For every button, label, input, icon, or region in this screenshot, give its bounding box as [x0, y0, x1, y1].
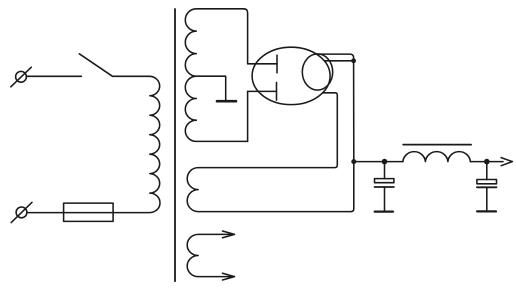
ground under C1 — [375, 211, 393, 213]
terminal X1 (top-left input, circle with slash) — [11, 67, 32, 87]
choke L1 winding — [403, 152, 471, 162]
junction dot at capacitor C2 — [484, 159, 490, 165]
arrow on W4 bottom lead — [223, 273, 235, 280]
capacitor C1 lower lead — [384, 188, 386, 211]
wire: HV secondary top lead down to anode 1 — [244, 9, 248, 64]
filament lead A (top) to junction — [318, 54, 354, 61]
fuse F1 — [64, 203, 114, 221]
tube V1 filament loop — [302, 54, 332, 90]
junction dot at capacitor C1 — [382, 159, 388, 165]
capacitor C2 (electrolytic) lead — [486, 162, 488, 180]
terminal X2 (bottom-left input, circle with slash) — [11, 202, 32, 222]
anode lead 2 of tube V1 — [248, 90, 277, 92]
ground (center tap) — [217, 100, 236, 103]
junction node at filter rail — [351, 159, 356, 164]
capacitor C1 top plate (rectangle) — [375, 179, 394, 183]
wire: HV secondary bottom lead up to anode 2 — [247, 91, 249, 141]
ground under C2 — [477, 210, 496, 212]
capacitor C1 (electrolytic) lead — [384, 162, 386, 179]
switch S1 (open knife switch blade) — [79, 54, 112, 77]
wire from switch to primary winding — [113, 75, 150, 77]
wire: filter rail to choke — [354, 161, 403, 163]
wire: choke to output — [470, 161, 503, 163]
filament lead C down to filament winding top — [198, 93, 337, 168]
anode plate 1 of tube V1 — [276, 55, 278, 73]
choke L1 core bar — [403, 144, 471, 146]
capacitor C2 top plate (rectangle) — [477, 180, 497, 184]
anode plate 2 of tube V1 — [276, 82, 278, 100]
transformer core — [174, 9, 176, 281]
capacitor C1 bottom plate — [375, 186, 394, 188]
filament lead B to junction — [325, 60, 354, 62]
anode lead 1 of tube V1 — [248, 63, 277, 65]
transformer HV secondary winding W2 with top/bottom leads — [185, 9, 247, 142]
junction dot (B+ output of filament) — [351, 58, 356, 63]
wire from terminal X2 to fuse — [27, 212, 64, 214]
center tap wire of W2 — [196, 76, 225, 100]
wire from junction down to filament winding bottom — [351, 61, 354, 212]
output arrow — [501, 158, 512, 166]
vibrator winding W4 with arrow leads — [187, 234, 230, 276]
capacitor C2 lower lead — [486, 188, 488, 211]
transformer primary winding W1 — [113, 76, 160, 212]
arrow on W4 top lead — [223, 231, 235, 238]
wire from terminal X1 to switch — [26, 75, 81, 77]
tube V1 envelope — [252, 47, 330, 104]
capacitor C2 bottom plate — [477, 186, 497, 188]
filament winding W3 — [187, 168, 351, 212]
